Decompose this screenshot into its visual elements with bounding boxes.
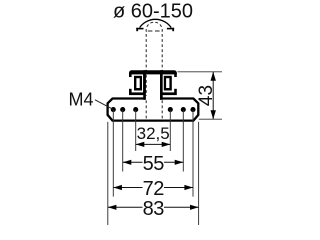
extension lines from outer holes: [112, 110, 114, 197]
mast dashed edge line right: [161, 34, 163, 120]
dimension 32,5: [136, 124, 171, 147]
clamp strap arc: [140, 19, 172, 27]
svg-text:43: 43: [196, 85, 217, 106]
mounting holes (6x M4): [111, 107, 196, 112]
svg-text:55: 55: [143, 153, 165, 175]
dimension 83: [108, 198, 199, 220]
clamp strap right foot: [167, 28, 174, 31]
svg-text:32,5: 32,5: [137, 124, 170, 143]
reference line bottom (base bottom): [199, 118, 222, 120]
svg-text:83: 83: [143, 198, 165, 220]
mast dashed edge line left: [145, 34, 147, 120]
dimension 72: [113, 178, 193, 200]
reference line top (head top): [178, 71, 223, 73]
leader line from M4 to hole: [95, 100, 113, 110]
mast dashed outline circle (upper part): [146, 22, 162, 32]
dimension 43 (vertical): [196, 72, 217, 119]
clamp head silhouette (top bridge bar, two slotted blocks, slot walls): [128, 70, 177, 100]
dimension 55: [123, 153, 184, 175]
extension lines from inner holes: [135, 110, 137, 151]
extension lines from middle holes: [122, 110, 124, 172]
clamp head: neck opening into base (white gap over base top edge): [146, 96, 160, 100]
hidden saddle edge dashes inside circle: [148, 30, 161, 32]
bracket base plate: [108, 99, 199, 121]
svg-text:M4: M4: [69, 90, 94, 110]
clamp strap left foot: [136, 28, 143, 31]
svg-text:ø 60-150: ø 60-150: [113, 1, 193, 23]
svg-text:72: 72: [143, 178, 165, 200]
extension lines from base edges: [107, 122, 109, 225]
